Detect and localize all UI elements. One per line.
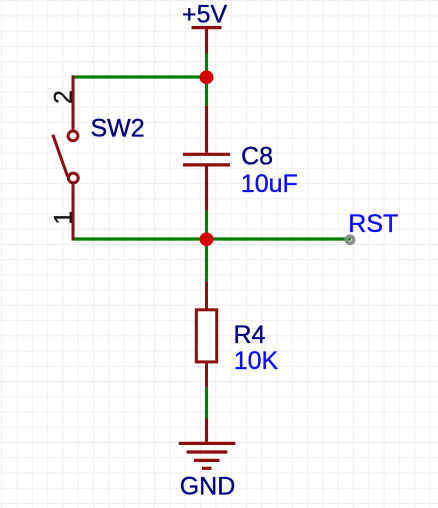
svg-text:SW2: SW2 <box>91 114 145 142</box>
wire <box>205 53 208 105</box>
junction <box>200 232 214 246</box>
svg-text:GND: GND <box>180 473 236 501</box>
wire <box>72 237 352 240</box>
junction <box>200 70 214 84</box>
capacitor C8 <box>183 106 230 211</box>
ground GND <box>179 419 235 469</box>
svg-text:RST: RST <box>348 210 398 238</box>
svg-text:C8: C8 <box>241 143 273 171</box>
svg-text:1: 1 <box>50 211 78 225</box>
wire <box>205 211 208 281</box>
resistor R4 <box>196 281 216 387</box>
wire <box>72 75 207 78</box>
svg-text:10uF: 10uF <box>241 170 298 198</box>
switch SW2 <box>53 75 78 240</box>
svg-text:+5V: +5V <box>182 1 228 29</box>
wire <box>205 388 208 419</box>
svg-text:2: 2 <box>50 90 78 104</box>
net RST <box>346 236 353 243</box>
svg-text:10K: 10K <box>234 347 279 375</box>
svg-text:R4: R4 <box>234 321 266 349</box>
power symbol +5V <box>192 28 222 54</box>
